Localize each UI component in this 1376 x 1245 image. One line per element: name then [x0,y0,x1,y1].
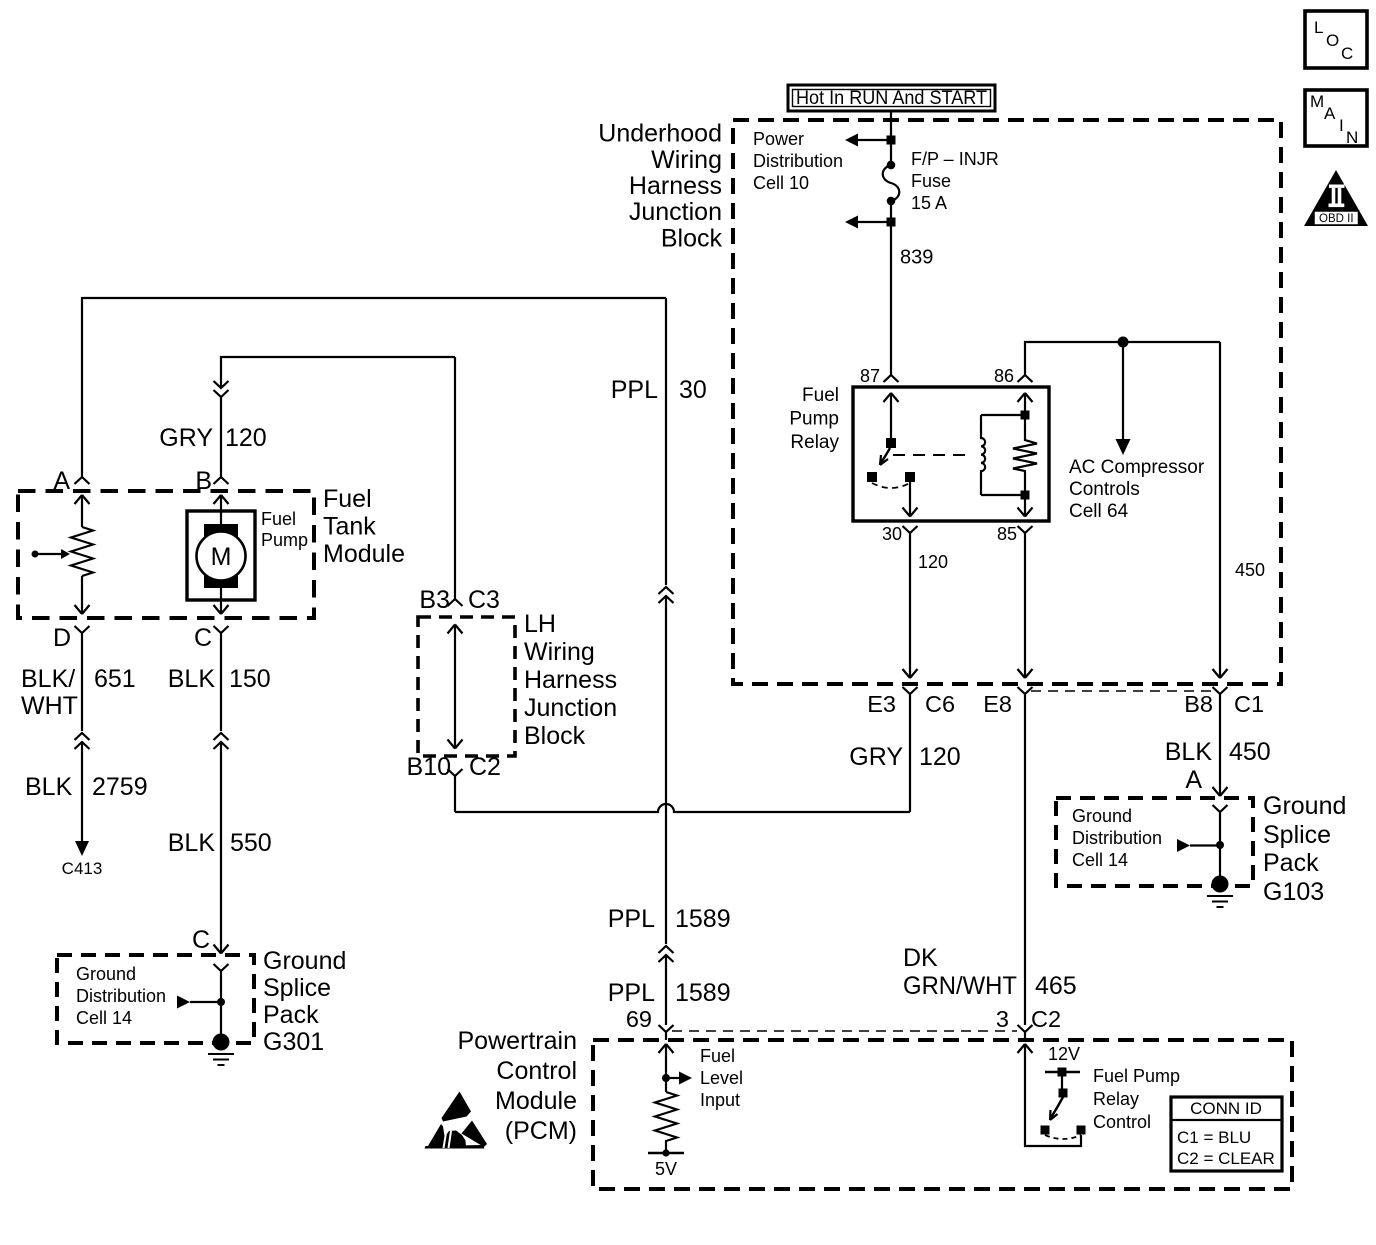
svg-text:Cell 64: Cell 64 [1069,501,1129,522]
svg-text:C: C [192,926,210,954]
svg-text:WHT: WHT [21,692,78,720]
svg-text:N: N [1346,128,1358,147]
wire DK GRN/WHT 465: E8 to PCM pin 3 [1024,708,1026,1025]
svg-text:Control: Control [496,1057,577,1085]
svg-text:M: M [1310,92,1324,111]
svg-text:A: A [1185,766,1202,794]
svg-text:(PCM): (PCM) [505,1117,577,1145]
Ground Distribution Cell 14 label (G301) [76,964,166,1028]
svg-text:Distribution: Distribution [1072,828,1162,848]
svg-text:Fuel Pump: Fuel Pump [1093,1066,1180,1086]
wire BLK 150 from pin C [220,647,222,731]
svg-text:PPL: PPL [608,979,655,1007]
power distribution tap arrow 1 [845,134,896,147]
sender lead to pin D [75,576,90,614]
svg-text:GRY: GRY [159,424,213,452]
svg-text:120: 120 [919,743,961,771]
wire label BLK 2759 [25,773,148,801]
svg-text:DK: DK [903,944,938,972]
OBD II symbol [1304,170,1368,226]
svg-text:Underhood: Underhood [598,120,722,148]
svg-text:C1: C1 [1234,691,1264,717]
Power Distribution Cell 10 label [753,129,843,193]
relay actuating dashed link [893,454,966,456]
svg-text:B: B [195,467,212,495]
svg-text:BLK/: BLK/ [21,665,75,693]
svg-text:O: O [1326,31,1339,50]
svg-text:Wiring: Wiring [524,638,595,666]
relay box [853,387,1049,521]
svg-text:Power: Power [753,129,804,149]
PCM dashed box [593,1040,1292,1189]
svg-text:E3: E3 [867,691,896,717]
G103 internal wire [1219,826,1221,876]
svg-text:LH: LH [524,610,556,638]
wire: splice to pin B [220,397,222,463]
Ground Distribution Cell 14 label (G103) [1072,806,1162,870]
fuel level input tap arrow [666,1072,692,1085]
svg-text:Fuel: Fuel [700,1046,735,1066]
motor lead to pin C [214,588,229,614]
svg-text:CONN ID: CONN ID [1190,1099,1262,1118]
wire BLK 2759 to C413 [75,742,89,856]
wire: GRY drop to B3 [454,357,456,585]
G103 pin connector [1213,805,1228,826]
svg-text:A: A [1324,104,1336,123]
connector pin D [53,624,90,652]
Fuel Level Input label [700,1046,743,1110]
wire: pin B up and across (GRY) [221,357,455,388]
relay control switch [1041,1076,1086,1139]
svg-text:69: 69 [626,1006,652,1032]
svg-text:Cell 14: Cell 14 [1072,850,1128,870]
svg-text:85: 85 [997,524,1017,544]
Ground Splice Pack G301 dashed box [57,955,254,1043]
relay switch arm [880,448,890,465]
svg-text:15 A: 15 A [911,193,947,213]
wire label PPL 1589 (lower) [608,979,731,1007]
12V supply [1045,1044,1080,1077]
svg-text:1589: 1589 [675,905,731,933]
svg-text:GRN/WHT: GRN/WHT [903,972,1017,1000]
svg-text:BLK: BLK [168,665,216,693]
fuse F/P-INJR 15A [883,161,900,206]
fuel level sender variable resistor [71,527,93,576]
junction node [1118,337,1129,348]
AC compressor feed arrow [1116,342,1131,455]
Powertrain Control Module label [458,1027,578,1145]
Fuel Pump Relay label [789,385,839,453]
svg-text:651: 651 [94,665,136,693]
G103 junction node [1216,841,1224,849]
svg-text:A: A [53,467,70,495]
svg-text:C: C [194,624,212,652]
relay switch contacts [867,472,915,482]
C splice [214,733,229,749]
wire label BLK 450 / pin A [1165,738,1271,794]
svg-text:Hot In RUN And START: Hot In RUN And START [796,88,987,109]
svg-text:30: 30 [882,524,902,544]
svg-text:C: C [1341,44,1353,63]
fuel pump motor [187,511,255,600]
svg-text:30: 30 [679,376,707,404]
connector pin A [53,463,89,495]
svg-text:B3: B3 [419,586,450,614]
PPL splice [659,587,674,603]
Underhood Wiring Harness Junction Block label [598,120,722,253]
MAIN reference box [1305,90,1367,147]
CONN ID legend box [1171,1097,1282,1171]
pin 30 connector [882,524,918,547]
svg-text:2759: 2759 [92,773,148,801]
wire DK GRN/WHT 465 label [903,944,1077,1000]
svg-text:Block: Block [661,225,723,253]
svg-text:5V: 5V [655,1159,677,1179]
svg-text:C2 = CLEAR: C2 = CLEAR [1177,1149,1275,1168]
svg-text:Distribution: Distribution [76,986,166,1006]
pin A internal lead [75,495,90,527]
svg-text:PPL: PPL [611,376,658,404]
wire: Hot feed down to fuse [890,111,892,165]
LH junction block dashed box [418,617,515,756]
PCM sender pull-up resistor [655,1092,677,1153]
wire label BLK 550 [168,829,272,857]
svg-text:Cell 10: Cell 10 [753,173,809,193]
svg-text:Ground: Ground [1072,806,1132,826]
connector E3 C6 [867,687,955,717]
svg-text:PPL: PPL [608,905,655,933]
F/P-INJR fuse label [911,149,999,213]
relay switch dashed throw arc [872,483,910,488]
wire PPL 1589 to pin 69 [665,955,667,1025]
svg-text:Module: Module [495,1087,577,1115]
svg-text:Control: Control [1093,1112,1151,1132]
pin 86 connector [994,361,1033,386]
svg-text:120: 120 [225,424,267,452]
svg-text:1589: 1589 [675,979,731,1007]
svg-text:Tank: Tank [323,513,376,541]
svg-text:Pump: Pump [261,530,308,550]
relay pin 86 internal lead [1018,393,1033,411]
Fuel Pump Relay Control label [1093,1066,1180,1132]
svg-text:Powertrain: Powertrain [458,1027,578,1055]
Ground Splice Pack G301 label [263,947,346,1056]
pin 69 connector [659,1025,674,1040]
svg-text:D: D [53,624,71,652]
connector B3 C3 [419,585,500,614]
LOC reference box [1305,11,1367,68]
svg-text:Fuel: Fuel [261,509,296,529]
pin 85 connector [997,524,1033,547]
connector C2 dashed tie [672,1030,1017,1032]
wire: B8 to G103 [1213,708,1228,796]
svg-text:AC Compressor: AC Compressor [1069,457,1205,478]
svg-text:Relay: Relay [1093,1089,1139,1109]
svg-text:86: 86 [994,366,1014,386]
relay pin 30 internal lead [903,482,918,517]
connector C1 dashed tie [1031,690,1213,692]
LH Wiring Harness Junction Block label [524,610,617,750]
pin 87 internal lead [884,393,899,448]
svg-text:L: L [1314,18,1323,37]
svg-text:Fuel: Fuel [323,485,372,513]
AC Compressor Controls label [1069,457,1205,522]
svg-text:Fuse: Fuse [911,171,951,191]
ground G103 [1207,876,1233,908]
wire 450 drop to B8 [1213,342,1266,678]
svg-text:Controls: Controls [1069,479,1140,500]
Fuel Tank Module dashed box [18,491,314,618]
wire label BLK 150 [168,665,271,693]
svg-text:BLK: BLK [25,773,73,801]
svg-text:839: 839 [900,247,933,269]
svg-text:I: I [1339,116,1344,135]
connector B8 C1 [1184,687,1264,717]
svg-text:Harness: Harness [629,172,722,200]
svg-text:G103: G103 [1263,878,1324,906]
wire PPL 1589 run [665,596,667,944]
svg-text:465: 465 [1035,972,1077,1000]
svg-text:Pump: Pump [789,409,839,430]
svg-text:C413: C413 [62,859,103,878]
svg-text:C1 = BLU: C1 = BLU [1177,1128,1251,1147]
ground G301 [208,1034,234,1066]
svg-text:Input: Input [700,1090,740,1110]
svg-text:Splice: Splice [1263,821,1331,849]
svg-text:Ground: Ground [1263,792,1346,820]
svg-text:Distribution: Distribution [753,151,843,171]
svg-text:C3: C3 [468,586,500,614]
pin 3 internal lead [1018,1044,1082,1146]
svg-text:Block: Block [524,722,586,750]
svg-text:BLK: BLK [168,829,216,857]
pin 69 internal lead [659,1044,674,1092]
svg-text:B8: B8 [1184,691,1213,717]
svg-text:E8: E8 [983,691,1012,717]
Ground Splice Pack G103 dashed box [1056,798,1253,886]
wire label GRY 120 at E3 [849,743,960,771]
wire label PPL 30 [611,376,707,404]
wire label BLK/WHT 651 [21,665,136,720]
wire 120 drop to E3 [903,547,949,678]
wire label PPL 1589 (upper) [608,905,731,933]
5V supply [648,1149,684,1179]
svg-text:OBD II: OBD II [1319,213,1354,225]
power distribution tap arrow 2 [845,216,896,229]
G301 junction node [217,998,225,1006]
wire: fuse to relay pin 87 [890,201,892,361]
svg-text:12V: 12V [1048,1044,1080,1064]
svg-text:550: 550 [230,829,272,857]
wire: pin 86 feed across top [1025,342,1220,361]
GRY splice run with hop over PPL [455,804,910,812]
svg-text:C6: C6 [925,691,955,717]
D splice [75,733,90,749]
Fuel Tank Module label [323,485,405,568]
Underhood junction block dashed box [733,120,1281,684]
connector pin B [195,463,228,495]
svg-text:Fuel: Fuel [802,385,839,406]
svg-text:Ground: Ground [76,964,136,984]
svg-text:450: 450 [1229,738,1271,766]
svg-text:GRY: GRY [849,743,903,771]
svg-text:F/P – INJR: F/P – INJR [911,149,999,169]
svg-text:B10: B10 [407,753,451,781]
svg-text:Level: Level [700,1068,743,1088]
svg-text:Pack: Pack [263,1001,319,1029]
svg-text:Harness: Harness [524,666,617,694]
svg-text:Module: Module [323,540,405,568]
wire: pin A up and across to PPL [82,298,666,463]
connector E8 [983,687,1032,717]
svg-text:M: M [211,543,232,571]
LH junction internal wire [448,625,463,749]
wire BLK/WHT 651 from pin D [81,647,83,731]
svg-text:Splice: Splice [263,974,331,1002]
svg-text:BLK: BLK [1165,738,1213,766]
ESD sensitive device symbol [425,1092,488,1149]
wire 465 drop to E8 [1018,547,1033,678]
relay internal junctions [1021,411,1030,500]
svg-text:Junction: Junction [629,198,722,226]
relay pin 85 internal lead [1018,499,1033,517]
pin 87 connector [860,361,899,386]
svg-text:450: 450 [1235,560,1265,580]
svg-text:Junction: Junction [524,694,617,722]
svg-text:3: 3 [996,1006,1009,1032]
G103 feed arrow [1177,839,1217,852]
svg-text:Relay: Relay [790,432,839,453]
svg-text:120: 120 [918,552,948,572]
relay coil [981,415,1021,495]
connector pin C [194,624,229,652]
svg-text:C2: C2 [469,753,501,781]
wire: E3 to splice run [909,708,911,812]
pin 3 connector [1018,1025,1033,1040]
GRY splice [214,381,229,397]
Ground Splice Pack G103 label [1263,792,1346,906]
svg-text:G301: G301 [263,1028,324,1056]
PPL lower splice [659,946,674,962]
svg-text:Ground: Ground [263,947,346,975]
pin 3 C2 label [996,1006,1061,1032]
connector B10 C2 [407,753,501,790]
wire label GRY 120 [159,424,266,452]
pin B internal lead [214,495,229,524]
svg-text:Pack: Pack [1263,849,1319,877]
G301 feed arrow [177,996,218,1009]
Fuel Pump label [261,509,308,550]
svg-text:87: 87 [860,366,880,386]
fuel level input node [662,1074,670,1082]
Hot In RUN And START feed box [788,85,995,111]
sender wiper arrow [32,549,71,559]
wire PPL 30 drop [665,298,667,585]
relay coil resistor [1013,420,1037,491]
svg-text:C2: C2 [1031,1006,1061,1032]
svg-text:Wiring: Wiring [651,146,722,174]
svg-text:Cell 14: Cell 14 [76,1008,132,1028]
svg-text:150: 150 [229,665,271,693]
G301 pin connector [214,964,229,985]
G301 internal wire [220,985,222,1034]
wire BLK 550 to G301 [214,742,229,954]
wire: B10 to GRY run [454,790,456,812]
